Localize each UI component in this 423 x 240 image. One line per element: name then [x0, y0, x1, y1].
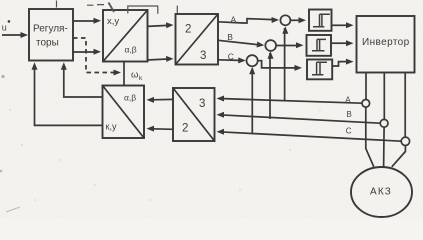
- current sensor B: [380, 119, 388, 127]
- wire feedback line B: [217, 112, 381, 123]
- summing junction B: [265, 40, 276, 51]
- wire sensor B to motor: [383, 127, 386, 167]
- wire phase C to summing junction: [218, 57, 246, 63]
- scan speckle noise: [0, 75, 321, 212]
- wire phase A to summing junction: [218, 17, 279, 23]
- wire regulators to xy-block top: [73, 18, 101, 24]
- wire feedback branch C up to summing: [249, 67, 255, 134]
- wire omega-k vertical: [123, 62, 125, 86]
- wire feedback branch A up to summing: [282, 26, 288, 100]
- wire 3-2 block to inverse transform top: [147, 97, 174, 103]
- wire relay A to inverter: [332, 22, 354, 28]
- current sensor C: [401, 137, 409, 145]
- wire xy-block to 2-3 block top: [148, 22, 174, 28]
- wire xy-block to 2-3 block bottom: [148, 56, 174, 62]
- wire feedback branch B up to summing: [268, 51, 274, 119]
- wire regulators to xy-block bottom: [73, 49, 101, 55]
- wire inverter output phase C down: [404, 73, 406, 138]
- block inverter: [357, 16, 415, 73]
- relay B block: [307, 35, 332, 56]
- wire phase B to summing junction: [218, 40, 264, 47]
- wire inverse transform feedback 2 to regulators: [32, 62, 103, 125]
- wire feedback line C: [217, 129, 402, 141]
- block phase converter 3 to 2: [173, 88, 215, 141]
- node u* input label: [2, 20, 10, 32]
- block coordinate transform x,y to alpha,beta: [103, 10, 148, 62]
- wire inverter output phase B down: [383, 73, 385, 120]
- block regulators: [29, 9, 73, 61]
- wire summing B to relay B: [276, 42, 303, 48]
- block phase converter 2 to 3: [176, 14, 219, 65]
- wire relay B to inverter: [331, 40, 354, 46]
- relay C block: [307, 60, 332, 80]
- summing junction A: [280, 15, 290, 25]
- wire feedback line A: [217, 96, 362, 104]
- wire inverse transform feedback 1 to regulators: [61, 62, 103, 97]
- wire sensor A to motor: [366, 107, 374, 167]
- wire inverter output phase A down: [365, 73, 367, 100]
- wire sensor C to motor: [392, 146, 406, 167]
- label omega-k: [131, 70, 143, 83]
- wire u* to regulators: [2, 32, 28, 38]
- block inverse transform alpha,beta to x,y: [103, 86, 145, 139]
- wire relay C to inverter: [332, 59, 353, 66]
- wire summing A to relay A: [290, 17, 306, 23]
- wire dashed regulators to omega-k node: [73, 38, 121, 76]
- current sensor A: [362, 100, 370, 108]
- wire 3-2 block to inverse transform bottom: [147, 126, 174, 132]
- scan artifact marks top: [57, 1, 178, 14]
- wire summing C to relay C: [258, 61, 302, 71]
- relay A block: [309, 10, 332, 31]
- summing junction C: [247, 55, 258, 66]
- motor AKZ: [351, 167, 412, 217]
